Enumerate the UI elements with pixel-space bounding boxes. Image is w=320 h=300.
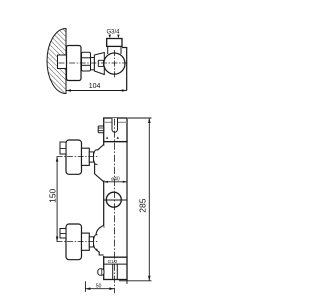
dimension 285 extension top <box>128 117 152 119</box>
dimension 285 extension bottom <box>119 280 152 282</box>
bottom bracket right edge stub <box>126 280 128 284</box>
column vertical centerline <box>114 119 116 294</box>
bottom bracket divider line <box>104 263 127 265</box>
slot in top bracket <box>112 118 118 132</box>
valve body circle (side view) <box>104 53 125 74</box>
small mark left <box>106 137 108 139</box>
screw tab on top bracket <box>98 126 104 133</box>
hidden line in top bracket <box>104 121 127 123</box>
side port line <box>101 269 103 276</box>
o40 arrow left <box>104 181 108 183</box>
bottom handle collar 2 <box>89 237 93 247</box>
wall flange (escutcheon, side view) <box>67 46 82 81</box>
screw tab lines <box>98 128 104 131</box>
bottom outlet slot <box>113 264 118 279</box>
svg-text:150: 150 <box>48 188 58 202</box>
circle horizontal centerline <box>104 199 127 201</box>
bottom handle boss <box>93 235 97 250</box>
svg-text:285: 285 <box>138 198 148 212</box>
50 arrow left <box>85 287 90 290</box>
collar (side view) <box>91 58 95 70</box>
G3/4 arrow right <box>117 35 119 39</box>
bottom handle knob <box>66 224 82 260</box>
bottom handle collar 1 <box>82 233 90 250</box>
top body bulge (thermostat housing) <box>95 145 104 182</box>
dimension 104 line <box>66 90 127 92</box>
dimension 285 line <box>148 118 150 281</box>
inner seat rectangle <box>98 60 103 66</box>
o40 arrow right <box>123 181 127 183</box>
top outlet union nut (G3/4) <box>107 39 122 47</box>
bottom handle button cap <box>60 229 66 239</box>
top handle collar 2 <box>89 152 93 162</box>
bottom body bulge (valve housing) <box>96 225 104 255</box>
centerline vertical (side view circle) <box>113 50 115 79</box>
svg-text:G1/2: G1/2 <box>108 259 118 264</box>
side profile of column (side view) <box>122 48 127 91</box>
small mark right <box>117 137 119 139</box>
top outlet pipe <box>108 46 121 54</box>
top handle knob <box>66 140 82 174</box>
G3/4 arrow left <box>109 35 111 39</box>
concealed body rectangle inside wall <box>58 55 67 69</box>
dimension 104 arrow left <box>66 89 71 92</box>
top handle centerline <box>57 156 99 158</box>
top handle button cap <box>60 142 66 154</box>
dimension o40 line <box>104 181 127 183</box>
150 arrow top <box>56 157 59 162</box>
shower hose circle on column <box>106 192 121 207</box>
bottom bracket <box>104 257 127 279</box>
svg-text:50: 50 <box>96 284 102 290</box>
front view: column bar <box>104 142 127 258</box>
dimension 50 extension left <box>84 281 86 292</box>
wall plug (hatched dome, side view) <box>47 29 66 94</box>
nut facet line upper <box>82 57 91 59</box>
285 arrow top <box>148 118 151 123</box>
top bracket (wall support) <box>104 118 127 142</box>
dimension 104 arrow right <box>122 89 127 92</box>
union nut (side view) <box>82 52 91 71</box>
nut facet line lower <box>82 64 91 66</box>
side port on bottom bracket <box>98 269 104 276</box>
dimension 150 line <box>56 157 58 242</box>
centerline horizontal (side view) <box>59 62 128 64</box>
bottom handle button line <box>60 233 66 235</box>
svg-text:104: 104 <box>89 83 101 90</box>
50 arrow right <box>109 287 114 290</box>
285 arrow bottom <box>148 276 151 281</box>
cone adapter (side view) <box>94 53 104 75</box>
top handle button line <box>60 147 66 149</box>
dimension 50 line <box>85 288 114 290</box>
top handle boss <box>93 150 97 165</box>
150 arrow bottom <box>56 237 59 242</box>
top handle collar 1 <box>82 148 90 165</box>
bottom handle centerline <box>57 241 99 243</box>
